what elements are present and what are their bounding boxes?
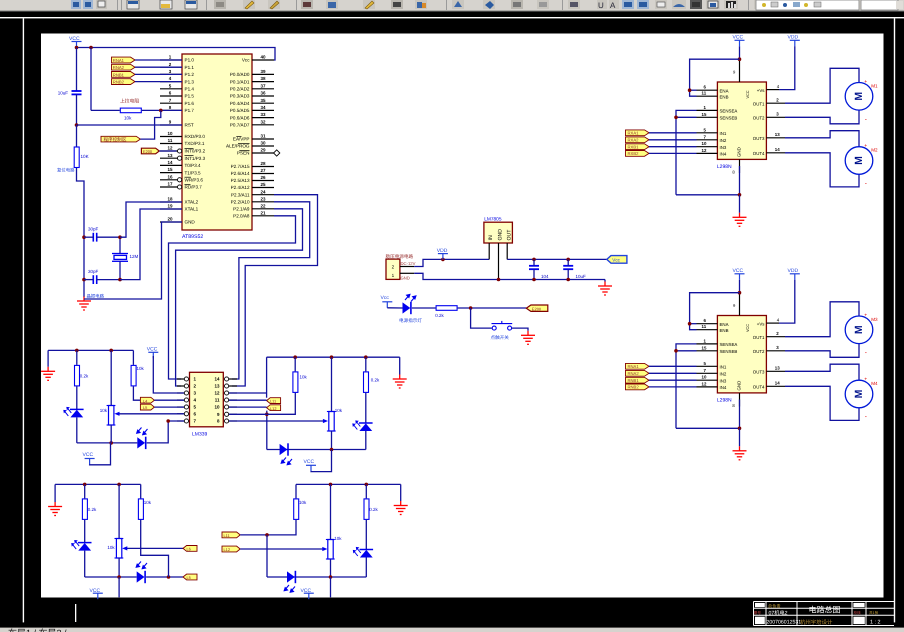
wire VCC to pot2 junction (311, 450, 332, 472)
node switch branch junction (469, 306, 473, 310)
svg-text:OUT1: OUT1 (753, 101, 765, 106)
svg-text:图号: 图号 (754, 611, 762, 615)
wire OUT3 to motor B plus (785, 131, 859, 147)
pin 9 top stub (739, 59, 741, 82)
wire pin6 to pot1 wiper (118, 413, 185, 415)
pot1 wiper arrowhead (114, 412, 119, 416)
svg-text:PSEN: PSEN (237, 151, 250, 156)
wire rail to ground lower-right (400, 484, 402, 501)
node pot1 bottom junction (109, 441, 113, 445)
svg-text:RXD/P3.0: RXD/P3.0 (185, 134, 206, 139)
wire P2.3 pin24 to LM339 pin13 (232, 195, 318, 386)
wire pin11 to L11 (229, 399, 267, 401)
node rail dot G (117, 483, 121, 487)
svg-text:INT0/P3.2: INT0/P3.2 (185, 149, 206, 154)
U1 left pin stubs (160, 60, 182, 222)
wire RXB1 to IN3 (649, 146, 697, 148)
netflag RXB1 driver (626, 144, 650, 150)
node driver ground junction (738, 193, 742, 197)
svg-text:10uF: 10uF (576, 274, 587, 279)
wire pot1 bottom lead (110, 425, 112, 443)
node crystal cap1 left junction (82, 235, 86, 239)
svg-text:P2.7/A15: P2.7/A15 (231, 164, 250, 169)
svg-text:LM7805: LM7805 (484, 217, 502, 223)
svg-text:L5: L5 (187, 575, 191, 580)
driver chip body (717, 82, 766, 159)
svg-text:GND: GND (737, 147, 742, 157)
node pot2 bottom junction (330, 448, 334, 452)
svg-text:RD/P3.7: RD/P3.7 (185, 185, 203, 190)
node rail dot A (75, 349, 79, 353)
node rail dot I (365, 483, 369, 487)
wire output bus (507, 258, 607, 260)
svg-text:14: 14 (214, 377, 220, 382)
U3 pin bubbles left (184, 377, 188, 423)
wire bottom rail lower-left (85, 576, 137, 578)
left pin numbers (702, 85, 707, 153)
wire LED to L5 flag (146, 576, 183, 578)
svg-text:IN: IN (488, 235, 494, 240)
U1 left pin numbers (167, 55, 173, 222)
svg-text:0.2k: 0.2k (369, 507, 378, 512)
svg-text:RNB1: RNB1 (113, 72, 125, 77)
svg-text:1: 1 (392, 273, 395, 278)
wire 0.2k to photodiode lower-right (365, 520, 367, 550)
wire E200 to pin 12 (159, 150, 176, 152)
U1 active-low overlines (185, 136, 250, 184)
svg-text:10k: 10k (299, 500, 307, 505)
ground crystal network (77, 297, 91, 311)
resistor 10k upper-left divider (132, 350, 134, 365)
wire pot3 junction down (118, 577, 120, 597)
svg-text:RXA1: RXA1 (628, 131, 640, 136)
svg-text:复位电路: 复位电路 (57, 168, 75, 173)
svg-text:P0.7/AD7: P0.7/AD7 (230, 123, 250, 128)
svg-text:L11: L11 (224, 533, 230, 538)
svg-text:104: 104 (541, 274, 549, 279)
svg-text:T0/P3.4: T0/P3.4 (185, 163, 202, 168)
pot4 wiper arrowhead (322, 547, 327, 551)
netflag L12 lower (222, 546, 240, 552)
wire RXA2 to IN2 (649, 139, 697, 141)
svg-text:U: U (598, 1, 604, 10)
svg-text:25: 25 (260, 182, 266, 187)
wire RST node down to resistor (76, 125, 78, 147)
node pot4 bottom junction (329, 575, 333, 579)
svg-text:上拉电阻: 上拉电阻 (120, 98, 139, 105)
wire OUT1 to motor A plus (785, 68, 859, 103)
node SENSEB junction (674, 116, 678, 120)
svg-text:0.2k: 0.2k (371, 378, 380, 383)
chip left pin stubs (697, 90, 718, 153)
svg-text:OUT3: OUT3 (753, 136, 765, 141)
svg-text:27: 27 (260, 168, 266, 173)
wire resistor to E200 (458, 307, 527, 309)
svg-text:19: 19 (167, 204, 173, 209)
wire gnd rail upper-right network (267, 356, 400, 358)
U3 pin numbers (194, 377, 197, 424)
node cap 10uF bottom junction (566, 278, 570, 282)
node cap 104 top junction (532, 258, 536, 262)
wire LED to pin7 (147, 421, 184, 443)
svg-text:P2.4/A12: P2.4/A12 (231, 185, 250, 190)
wire enable loop to VCC (690, 59, 740, 96)
motor B (845, 147, 873, 175)
netflag L5 lower (183, 574, 197, 580)
wire U5 IN lead (488, 243, 490, 259)
svg-text:+Vs: +Vs (757, 88, 765, 93)
svg-text:24: 24 (260, 189, 266, 194)
capacitor 104 (529, 266, 539, 269)
svg-text:RXA2: RXA2 (628, 138, 640, 143)
svg-text:P2.2/A10: P2.2/A10 (231, 200, 250, 205)
wire rail to ground right (399, 357, 401, 374)
wire 0.2k to photodiode (365, 393, 367, 423)
wire D7 to bottom rail (365, 558, 367, 578)
wire 10k to L11 node (267, 520, 296, 535)
wire U5 GND lead (498, 243, 500, 280)
wire resistor to crystal ground rail (77, 168, 85, 297)
potentiometer 10k lower-right (326, 540, 335, 560)
wire VDD to +Vs (779, 46, 795, 89)
wire 10k to L4 node (133, 386, 140, 400)
potentiometer 10k lower-left (115, 539, 124, 559)
wire bottom rail upper-right (267, 449, 366, 451)
wire program port to pull-up node (140, 110, 160, 139)
wire pot1 top lead (110, 350, 112, 405)
wire down to ground (739, 195, 741, 213)
wire pin12 stub to column (229, 392, 267, 394)
netflag E200 at INT0 (141, 148, 159, 154)
svg-text:15: 15 (167, 167, 173, 172)
svg-text:30pF: 30pF (88, 269, 99, 274)
svg-text:30pF: 30pF (88, 227, 99, 232)
svg-text:RXB2: RXB2 (628, 151, 640, 156)
svg-text:14: 14 (167, 160, 173, 165)
svg-text:OUT2: OUT2 (753, 116, 765, 121)
svg-text:E200: E200 (532, 307, 542, 312)
wire L11 node down (266, 535, 268, 577)
ground switch (521, 331, 535, 345)
svg-text:IN3: IN3 (720, 145, 727, 150)
netflag RXB2 (112, 79, 136, 85)
svg-text:P0.2/AD2: P0.2/AD2 (230, 87, 250, 92)
pushbutton switch (492, 321, 513, 330)
netflag L6 (183, 546, 197, 552)
svg-text:L12: L12 (270, 406, 277, 411)
capacitor 30pF C1 (93, 233, 96, 242)
node pull-up junction (159, 109, 163, 113)
wire OUT2 to motor A minus (785, 110, 859, 124)
svg-text:10: 10 (167, 131, 173, 136)
node U5 GND junction (497, 278, 501, 282)
svg-text:17: 17 (167, 182, 173, 187)
svg-text:10K: 10K (81, 154, 90, 159)
wire pin8 to pot2 wiper (229, 420, 325, 422)
svg-text:P2.1/A9: P2.1/A9 (233, 207, 250, 212)
svg-text:21: 21 (260, 210, 266, 215)
wire DC-12V to regulator input bus (414, 259, 489, 266)
capacitor 30pF C2 (93, 275, 96, 284)
resistor 0.2k upper-right (365, 357, 367, 371)
svg-text:P0.1/AD1: P0.1/AD1 (230, 79, 250, 84)
svg-text:Vcc: Vcc (612, 258, 620, 263)
wire XTAL2 to C1 (120, 202, 182, 237)
wire 10k to LED junction (141, 520, 169, 577)
netflag RXA2 (112, 64, 136, 70)
svg-text:0.2k: 0.2k (88, 507, 97, 512)
node pin9 junction (265, 413, 269, 417)
svg-text:P0.4/AD4: P0.4/AD4 (230, 101, 250, 106)
svg-text:37: 37 (260, 83, 266, 88)
L298 motor driver block upper (U2) (674, 35, 873, 227)
netflag RNA1 driver2 (626, 363, 650, 369)
svg-text:P2.5/A13: P2.5/A13 (231, 178, 250, 183)
wire RNA2 to IN2 (649, 372, 697, 374)
wire D5 to bottom rail (84, 551, 86, 577)
LED D4 (280, 443, 288, 455)
netflag RXA1 driver (626, 130, 650, 136)
node cap 104 bottom junction (532, 278, 536, 282)
wire gnd rail lower-left network (55, 483, 141, 485)
svg-text:E200: E200 (143, 149, 153, 154)
wire branch down to switch (471, 308, 492, 328)
node LED output junction (167, 575, 171, 579)
node rail dot F (83, 483, 87, 487)
netflag L5 (140, 404, 154, 410)
svg-text:10k: 10k (137, 366, 145, 371)
wire VCC rail to pin 40 (77, 48, 276, 61)
wire C1 leads (84, 236, 93, 238)
svg-text:10k: 10k (100, 408, 108, 413)
ground upper-right network (393, 375, 407, 389)
netflag RNB2 driver2 (626, 384, 650, 390)
svg-text:33: 33 (260, 112, 266, 117)
U1 inverted-pin bubbles pins 12,13,16,17 (178, 149, 182, 189)
node VCC rail junction A (75, 46, 79, 50)
wire sense return (676, 194, 740, 196)
netflag E200 switch (526, 305, 548, 311)
netflag RXA2 driver (626, 137, 650, 143)
svg-text:12: 12 (702, 148, 707, 153)
title block white cells (755, 603, 765, 607)
white vertical line right (894, 18, 895, 622)
svg-text:校核: 校核 (854, 610, 862, 615)
svg-text:35: 35 (260, 98, 266, 103)
svg-text:10k: 10k (144, 500, 152, 505)
svg-text:11: 11 (215, 398, 220, 403)
svg-text:RNA2: RNA2 (628, 371, 640, 376)
wire pot2 bottom lead (331, 431, 333, 450)
svg-text:29: 29 (260, 148, 266, 153)
svg-text:晶振电路: 晶振电路 (87, 294, 105, 299)
wire VCC down to reset network (76, 48, 78, 92)
power port Vcc output flag (607, 256, 627, 264)
svg-text:2: 2 (392, 264, 395, 269)
netflag RNB1 driver2 (626, 377, 650, 383)
svg-text:10k: 10k (107, 545, 115, 550)
netflag L11 (267, 398, 281, 404)
ground lower-left network (48, 502, 62, 516)
photodiode D3 (353, 421, 373, 431)
wire L12 to pot4 wiper (240, 548, 324, 550)
svg-text:15: 15 (702, 112, 707, 117)
wire pot4 junction down (330, 577, 332, 597)
svg-text:ENB: ENB (720, 94, 729, 99)
connector J1 DC input body (386, 259, 400, 279)
potentiometer 10k upper-left (107, 406, 116, 426)
svg-text:P0.6/AD6: P0.6/AD6 (230, 115, 250, 120)
wire RST to pin 9 (77, 124, 183, 126)
wire P2.1 pin22 to LM339 pin2 (176, 209, 303, 386)
svg-text:39: 39 (260, 69, 266, 74)
node pin9 junction (738, 57, 742, 61)
netflag RXA1 (112, 57, 136, 63)
svg-text:AT89S52: AT89S52 (182, 234, 203, 240)
node pin7 junction (166, 419, 170, 423)
svg-text:40: 40 (260, 55, 266, 60)
wire pot4 top lead (330, 484, 332, 539)
svg-text:11: 11 (702, 91, 707, 96)
svg-text:L6: L6 (187, 547, 191, 552)
svg-text:M3: M3 (871, 317, 878, 322)
svg-text:RNB2: RNB2 (113, 80, 125, 85)
capacitor 10uF filter (563, 266, 573, 269)
svg-text:杭州宇培设计: 杭州宇培设计 (800, 619, 833, 626)
svg-text:1 : 2: 1 : 2 (870, 620, 881, 626)
U3 right pin stubs (229, 379, 237, 421)
svg-text:M4: M4 (871, 381, 878, 386)
wire bottom bus to ground (604, 280, 606, 282)
small white cursor line bottom-left (75, 604, 76, 622)
resistor 0.2k lower-left (84, 484, 86, 498)
svg-text:RNA2: RNA2 (113, 65, 125, 70)
svg-text:RNA1: RNA1 (628, 364, 640, 369)
pot2 wiper arrowhead (323, 419, 328, 423)
svg-text:点触开关: 点触开关 (491, 335, 510, 340)
resistor 10k lower-left divider (140, 484, 142, 498)
svg-text:-: - (865, 180, 867, 187)
wire L12 down the column (266, 411, 268, 450)
svg-text:P1.6: P1.6 (185, 101, 195, 106)
node rail dot B (109, 349, 113, 353)
wire SENSEB tap (676, 116, 697, 118)
wire RXB2 to IN4 (649, 152, 697, 154)
svg-text:稳压电源电路: 稳压电源电路 (386, 254, 414, 259)
svg-text:36: 36 (260, 91, 266, 96)
svg-text:OUT: OUT (506, 229, 512, 241)
svg-text:16: 16 (167, 174, 173, 179)
wire crystal column (119, 237, 121, 253)
svg-text:0.2k: 0.2k (80, 374, 89, 379)
wire gnd rail lower-right network (296, 483, 401, 485)
svg-text:SENSEB: SENSEB (720, 116, 738, 121)
wire SENSEA down (676, 110, 697, 194)
ground upper-left network (41, 367, 55, 381)
svg-text:VCC: VCC (147, 347, 158, 353)
wire U5 OUT lead (506, 243, 508, 259)
resistor 10k lower-right divider (295, 484, 297, 498)
svg-text:IN2: IN2 (720, 138, 727, 143)
svg-text:GND: GND (185, 220, 196, 225)
svg-text:L12: L12 (224, 547, 231, 552)
svg-text:RNB1: RNB1 (628, 378, 640, 383)
white horizontal divider line (0, 17, 904, 18)
svg-text:RST: RST (185, 123, 194, 128)
svg-text:LM339: LM339 (192, 432, 208, 438)
svg-text:INT1/P3.3: INT1/P3.3 (185, 156, 206, 161)
svg-text:P0.5/AD5: P0.5/AD5 (230, 108, 250, 113)
bottom layout-tab strip (0, 628, 904, 632)
netflag L11 lower (222, 532, 240, 538)
svg-text:18: 18 (167, 197, 173, 202)
svg-text:P1.5: P1.5 (185, 94, 195, 99)
wire D1 to bottom rail (76, 417, 78, 443)
node VCC rail junction B (89, 46, 93, 50)
potentiometer 10k upper-right (327, 412, 336, 432)
wire P2.0 pin21 to LM339 pin1 (169, 216, 296, 379)
wire pot3 top lead (118, 484, 120, 538)
netflag program control port (101, 136, 140, 142)
svg-text:07机电2: 07机电2 (769, 610, 788, 617)
svg-text:+: + (864, 79, 867, 85)
svg-text:L298N: L298N (717, 164, 732, 170)
wire VCC to pin3 (153, 356, 184, 393)
wire LED to resistor (412, 307, 436, 309)
svg-text:VDD: VDD (437, 248, 448, 254)
node rail dot H (329, 483, 333, 487)
right pin numbers (775, 97, 780, 152)
white vertical line left (23, 18, 24, 622)
resistor 10K reset pulldown (74, 147, 79, 168)
node rail dot C (293, 355, 297, 359)
svg-text:12: 12 (214, 391, 220, 396)
svg-text:XTAL2: XTAL2 (185, 200, 199, 205)
wire rail to ground (47, 350, 49, 366)
wire RXB2 to pin4 (135, 81, 182, 83)
wire pot4 bottom lead (330, 559, 332, 577)
node ENA junction (688, 88, 692, 92)
svg-text:P2.6/A14: P2.6/A14 (231, 171, 250, 176)
wire 0.2k to photodiode lower-left (84, 520, 86, 543)
svg-text:RNA1: RNA1 (113, 58, 125, 63)
LED D6 (137, 571, 145, 583)
node rail dot E (364, 355, 368, 359)
svg-text:程序控制区: 程序控制区 (104, 137, 127, 142)
resistor 10k pull-up (91, 109, 120, 111)
wire Vcc to LED (387, 307, 402, 309)
wire switch to ground (512, 328, 528, 331)
svg-text:Vcc: Vcc (242, 58, 250, 63)
wire L11 to node (240, 534, 267, 536)
L298 motor driver block lower (U4) (674, 268, 873, 460)
svg-text:13: 13 (214, 384, 220, 389)
svg-text:RNB2: RNB2 (628, 385, 640, 390)
U1 pin 29 PSEN diamond (274, 150, 280, 156)
svg-text:电路总图: 电路总图 (809, 606, 841, 615)
wire 0.2k to photodiode (76, 386, 78, 409)
svg-text:32: 32 (260, 119, 266, 124)
wire P2.2 pin23 to LM339 pin14 (232, 202, 310, 379)
svg-text:-: - (865, 116, 867, 123)
svg-text:Vcc: Vcc (381, 295, 390, 301)
svg-text:13: 13 (775, 132, 780, 137)
svg-text:DC-12V: DC-12V (401, 261, 416, 266)
node crystal bottom junction (118, 278, 122, 282)
wire bottom rail lower-right (267, 576, 366, 578)
svg-text:VCC: VCC (83, 452, 94, 458)
node RST junction (75, 123, 79, 127)
